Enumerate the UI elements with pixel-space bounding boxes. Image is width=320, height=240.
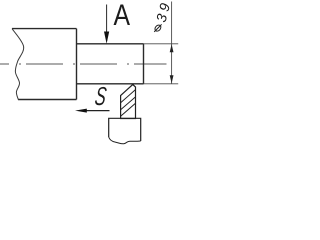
workpiece large cylinder outline bbox=[12, 29, 77, 100]
extension line bottom (for diameter 39) bbox=[144, 83, 179, 85]
centerline bbox=[0, 63, 167, 65]
label A bbox=[114, 0, 131, 31]
tool holder bbox=[109, 118, 141, 141]
insert hatch line 2 bbox=[121, 97, 136, 110]
svg-text:39: 39 bbox=[153, 0, 174, 24]
label diameter slash bbox=[154, 24, 161, 32]
svg-text:A: A bbox=[114, 0, 131, 31]
dimension line diameter 39 bbox=[171, 2, 173, 84]
break line (wavy left edge of large cylinder) bbox=[12, 29, 24, 100]
insert hatch line 3 bbox=[121, 103, 136, 116]
tool holder break line (wavy bottom) bbox=[109, 137, 141, 144]
svg-text:S: S bbox=[93, 81, 108, 111]
label diameter symbol bbox=[154, 24, 162, 32]
grinding wheel / cutter insert outline bbox=[121, 85, 136, 119]
label 39 value bbox=[153, 0, 174, 24]
dimension arrow down bbox=[170, 75, 174, 83]
dimension arrow up bbox=[170, 44, 174, 52]
section view arrow A bbox=[104, 5, 109, 44]
extension line top (for diameter 39) bbox=[144, 43, 179, 45]
insert hatch line 1 bbox=[121, 90, 136, 103]
feed direction arrow S bbox=[75, 109, 110, 113]
label S bbox=[93, 81, 108, 111]
workpiece small cylinder (ground journal) bbox=[77, 44, 144, 84]
